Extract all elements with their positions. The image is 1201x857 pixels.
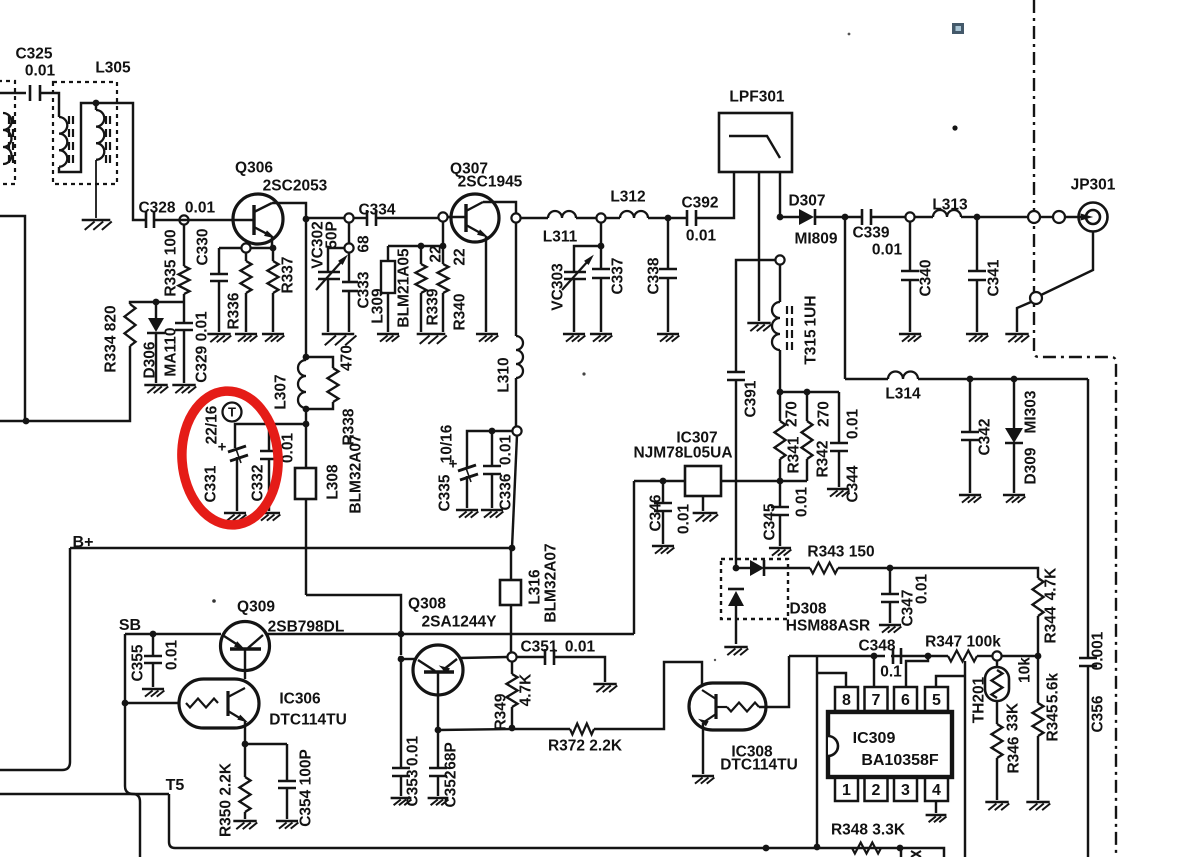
svg-text:0.01: 0.01: [164, 640, 181, 671]
svg-text:MI809: MI809: [794, 231, 837, 248]
diode D308b: [728, 588, 744, 591]
capacitor C392 0.01: [668, 217, 687, 219]
node D307 anode: [777, 214, 784, 221]
svg-text:4: 4: [932, 782, 941, 799]
transformer L304 (partial, cut at left edge): [0, 81, 15, 184]
node C346: [660, 478, 667, 485]
IC309 pin 7: [865, 687, 888, 711]
capacitor C329 0.01: [183, 302, 185, 323]
svg-text:SB: SB: [119, 617, 141, 634]
svg-text:D306: D306: [142, 341, 159, 378]
svg-text:+: +: [449, 455, 458, 472]
L305 core: [68, 116, 70, 124]
svg-text:R337: R337: [280, 256, 297, 293]
L305 secondary bottom to ground: [95, 160, 97, 218]
ground under C329: [172, 384, 195, 387]
node L305 secondary top: [93, 100, 100, 107]
ground under C336: [481, 509, 503, 512]
capacitor C352 68P: [437, 730, 439, 768]
wire Q308 base down: [437, 673, 439, 730]
wire Q306 collector: [272, 203, 306, 219]
capacitor C325 0.01: [29, 85, 32, 101]
capacitor C346 0.01: [662, 481, 664, 503]
wire C328 to Q306 base: [154, 219, 233, 221]
wire R343 to R344: [838, 568, 1038, 578]
svg-text:HSM88ASR: HSM88ASR: [786, 618, 870, 635]
ground under C346: [652, 545, 674, 548]
svg-text:6: 6: [901, 692, 910, 709]
resistor R343 150: [810, 563, 838, 574]
svg-text:C355: C355: [130, 644, 147, 681]
ground under C335: [456, 509, 478, 512]
ground under C352: [428, 797, 449, 800]
svg-text:8: 8: [842, 692, 851, 709]
dual diode D308 HSM88ASR (dotted box): [721, 559, 788, 619]
svg-text:0.01: 0.01: [498, 435, 515, 466]
node jack switch contact 1: [1028, 211, 1040, 223]
transistor Q307 2SC1945: [451, 194, 499, 242]
wire IC307 output: [634, 480, 685, 482]
svg-text:L313: L313: [932, 197, 968, 214]
resistor R372 2.2K: [570, 724, 594, 735]
svg-text:0.01: 0.01: [845, 409, 862, 440]
svg-text:C329 0.01: C329 0.01: [194, 311, 211, 383]
wire C341 to jack: [977, 216, 1029, 218]
svg-text:5: 5: [932, 692, 941, 709]
T5 corner to bottom rail: [169, 794, 175, 848]
svg-text:R348 3.3K: R348 3.3K: [831, 822, 906, 839]
svg-text:C345: C345: [762, 503, 779, 540]
svg-text:C356: C356: [1090, 695, 1107, 732]
svg-text:4.7K: 4.7K: [1043, 567, 1060, 601]
ground under C351: [593, 683, 616, 686]
svg-text:BLM32A07: BLM32A07: [348, 434, 365, 513]
wire base tap down: [442, 222, 444, 246]
capacitor C356 0.001: [1079, 657, 1097, 660]
capacitor C333 68: [348, 252, 350, 282]
wire Q309 collector to IC307 feed: [267, 633, 634, 635]
svg-text:3: 3: [901, 782, 910, 799]
ground under C331: [224, 512, 246, 515]
inductor L313: [933, 210, 961, 217]
resistor R342 270: [806, 392, 808, 421]
node pin7 tap: [871, 653, 878, 660]
svg-text:R372 2.2K: R372 2.2K: [548, 738, 623, 755]
node C338: [665, 215, 672, 222]
node R350/C354: [242, 741, 249, 748]
inductor L312: [620, 211, 648, 218]
node C328/R335: [179, 215, 188, 224]
capacitor C336 0.01: [491, 431, 493, 466]
svg-text:MA110: MA110: [163, 327, 180, 376]
svg-text:0.01: 0.01: [185, 200, 216, 217]
wire SB corner down: [124, 634, 126, 703]
svg-text:D307: D307: [788, 193, 825, 210]
svg-text:C346: C346: [648, 494, 665, 531]
node Q308 base/C352: [435, 727, 442, 734]
inductor L310: [516, 336, 523, 378]
inductor L307: [298, 360, 306, 408]
node T315 bottom: [777, 389, 784, 396]
svg-text:L311: L311: [543, 229, 578, 246]
resistor R336: [245, 252, 247, 261]
svg-text:BA10358F: BA10358F: [861, 752, 939, 769]
svg-text:C334: C334: [358, 202, 395, 219]
capacitor C354 100P: [286, 744, 288, 781]
svg-text:10k: 10k: [1017, 657, 1034, 683]
wire R372 to IC308: [594, 662, 702, 729]
IC309 pin 3: [894, 777, 917, 801]
resistor R337: [272, 251, 274, 261]
svg-text:T5: T5: [166, 777, 185, 794]
ground under pin4: [926, 814, 947, 817]
ground under R339/R340: [417, 333, 446, 336]
wire to L308: [305, 424, 307, 468]
svg-text:0.1: 0.1: [880, 664, 902, 681]
inductor L311: [548, 211, 576, 218]
svg-text:50P: 50P: [324, 221, 341, 249]
capacitor C347 0.01: [889, 568, 891, 594]
wire Q307 emitter: [485, 236, 487, 332]
svg-text:DTC114TU: DTC114TU: [720, 757, 798, 774]
svg-text:C336: C336: [498, 473, 515, 510]
ferrite bead L316 BLM32A07: [500, 580, 521, 605]
wire C335/C336 branch: [467, 431, 512, 468]
IC309 pin 6: [894, 687, 917, 711]
capacitor C348 0.1: [892, 648, 895, 664]
wire C391 branch: [736, 260, 776, 372]
capacitor C344 0.01: [838, 392, 840, 443]
capacitor C332 0.01: [268, 424, 270, 451]
op-amp IC309 BA10358F: [828, 712, 952, 777]
ground under C341: [966, 333, 988, 336]
node C331/C332 tap: [303, 421, 310, 428]
svg-text:D309: D309: [1023, 447, 1040, 484]
node bracket/R348: [814, 844, 821, 851]
svg-text:T: T: [228, 405, 236, 420]
node D306 top: [153, 299, 160, 306]
svg-text:2SC1945: 2SC1945: [458, 174, 523, 191]
svg-text:DTC114TU: DTC114TU: [269, 712, 347, 729]
wire IC308 emitter to ground: [702, 723, 704, 774]
wire L307 to C331 tap: [305, 409, 307, 424]
blue marker square: [952, 23, 964, 34]
wire node to L312: [605, 217, 620, 219]
wire right bracket: [964, 661, 966, 857]
svg-text:C342: C342: [977, 418, 994, 455]
resistor R339 22: [420, 246, 422, 264]
wire collector to C334: [306, 217, 344, 219]
resistor R338 470: [306, 357, 333, 368]
svg-text:R349: R349: [493, 693, 510, 730]
svg-text:C331: C331: [203, 465, 220, 502]
svg-text:IC306: IC306: [279, 691, 321, 708]
ground under C342: [959, 494, 981, 497]
transistor Q306 2SC2053: [233, 194, 283, 244]
svg-text:R344: R344: [1043, 606, 1060, 643]
svg-text:JP301: JP301: [1071, 177, 1116, 194]
svg-text:MI303: MI303: [1023, 390, 1040, 433]
ground under C337: [590, 333, 612, 336]
node L310/L316/B+ junction: [509, 545, 516, 552]
wire to R344/R345 node: [1002, 655, 1038, 657]
svg-text:Q306: Q306: [235, 160, 273, 177]
inductor T315 1UH: [779, 264, 781, 302]
svg-text:R341: R341: [786, 436, 803, 473]
node jack switch contact 2: [1053, 211, 1065, 223]
wire pin6 stub: [906, 656, 928, 687]
wire R347 to TH201 node: [977, 655, 992, 657]
svg-text:0.01: 0.01: [676, 504, 693, 535]
wire D307 node down: [844, 217, 846, 379]
ground under R350: [233, 820, 256, 823]
node bottom rail left: [763, 845, 770, 852]
ground under C353: [391, 797, 412, 800]
wire base row: [438, 729, 512, 730]
svg-text:68: 68: [356, 235, 373, 253]
svg-text:0.01: 0.01: [794, 487, 811, 518]
trimmer capacitor VC303: [564, 271, 586, 274]
ground under jack switch: [1005, 333, 1028, 336]
capacitor C341: [976, 217, 978, 271]
thermistor TH201 10k: [996, 661, 998, 667]
svg-text:C344: C344: [845, 465, 862, 502]
capacitor C391: [727, 371, 745, 374]
wire SB drop to T5 line: [125, 703, 133, 794]
node D308 common: [733, 565, 740, 572]
L305 secondary winding: [95, 103, 97, 110]
ground under IC307: [693, 512, 718, 515]
svg-text:+: +: [218, 438, 227, 455]
wire L308 to Q309/Q308 feed: [306, 595, 401, 655]
svg-text:5.6k: 5.6k: [1045, 673, 1062, 704]
svg-text:C330: C330: [195, 228, 212, 265]
diode D306 MA110: [155, 302, 157, 318]
svg-text:L316: L316: [527, 569, 544, 605]
ground under VC303: [563, 333, 585, 336]
svg-text:C354 100P: C354 100P: [298, 749, 315, 827]
svg-text:0.01: 0.01: [25, 63, 56, 80]
jack sleeve switch wire: [1041, 231, 1093, 295]
speck marks: [952, 125, 957, 130]
electrolytic capacitor C335 10/16: [458, 465, 476, 471]
svg-text:0.001: 0.001: [1090, 631, 1107, 670]
node R344/R345: [1035, 653, 1042, 660]
T5 branch down: [133, 794, 140, 857]
wire left edge feed: [0, 216, 25, 421]
capacitor C338: [667, 218, 669, 269]
ground under VC302/C333: [322, 333, 355, 336]
resistor R350 2.2K: [244, 744, 246, 777]
wire bias row: [388, 245, 443, 247]
capacitor C340: [909, 222, 911, 271]
svg-text:R339: R339: [425, 288, 442, 325]
svg-text:C335: C335: [437, 474, 454, 511]
svg-text:L312: L312: [610, 189, 645, 206]
ground under C347: [879, 624, 901, 627]
svg-text:C392: C392: [681, 195, 718, 212]
node VC302/C333 junction: [344, 243, 353, 252]
svg-text:L307: L307: [273, 374, 290, 409]
wire R334 top to bias node: [130, 302, 184, 304]
svg-text:2SA1244Y: 2SA1244Y: [422, 614, 498, 631]
svg-text:TH201: TH201: [971, 676, 988, 723]
node C336 top: [489, 428, 496, 435]
capacitor C353 0.01: [392, 767, 410, 770]
wire collector node down: [305, 219, 307, 357]
wire Q309 base down: [244, 650, 246, 679]
svg-text:Q309: Q309: [237, 599, 275, 616]
svg-text:0.01: 0.01: [565, 639, 596, 656]
LPF301 pin2 to ground: [758, 172, 760, 321]
wire to VC302: [328, 248, 345, 272]
capacitor C334: [353, 217, 367, 219]
svg-text:L310: L310: [496, 357, 513, 392]
wire to R334: [26, 346, 130, 421]
ground under R337: [262, 333, 284, 336]
ground under C332: [258, 512, 280, 515]
ground under L309: [377, 333, 399, 336]
IC309 pin 5: [925, 687, 948, 711]
wire collector node to L311: [520, 217, 548, 219]
svg-text:2SC2053: 2SC2053: [263, 178, 328, 195]
transistor Q309 2SB798DL: [221, 622, 270, 671]
bottom rail wire: [175, 847, 901, 849]
svg-text:R347 100k: R347 100k: [925, 634, 1001, 651]
pin4 ground wire: [935, 801, 937, 813]
svg-text:R345: R345: [1045, 704, 1062, 741]
node C351/R349/L316: [507, 652, 516, 661]
capacitor C355 0.01: [152, 634, 154, 656]
svg-text:R340: R340: [452, 293, 469, 330]
node R349 bottom: [509, 725, 516, 732]
svg-text:0.01: 0.01: [405, 736, 422, 767]
node C340: [905, 212, 914, 221]
wire contact link: [1040, 216, 1053, 218]
wire C331/C332 branch: [235, 424, 306, 448]
node R342 top: [804, 389, 811, 396]
ground under R345: [1026, 801, 1049, 804]
wire pin8 bracket: [816, 656, 818, 847]
wire pin7 stub: [873, 656, 875, 687]
resistor R344 4.7K: [1033, 578, 1044, 616]
svg-text:L308: L308: [325, 464, 342, 500]
wire L313 to C341 node: [961, 216, 977, 218]
node R336 top: [241, 243, 250, 252]
diode D307 MI809: [780, 216, 799, 218]
diode D309 MI303: [1013, 379, 1015, 428]
wire IC306 input: [125, 702, 179, 704]
svg-text:68P: 68P: [443, 742, 460, 770]
svg-text:T315: T315: [803, 329, 820, 365]
wire IC308 base resistor out: [759, 656, 789, 707]
wire to VC303: [574, 246, 598, 272]
electrolytic capacitor C331 22/16: [228, 446, 246, 452]
wire C325 to L305 primary: [40, 93, 59, 117]
svg-text:NJM78L05UA: NJM78L05UA: [633, 445, 732, 462]
wire IC306 emitter down: [244, 721, 246, 744]
svg-text:7: 7: [872, 692, 881, 709]
ground under D308: [724, 646, 747, 649]
node pin6 tap: [925, 653, 932, 660]
ground under D309: [1003, 494, 1025, 497]
ferrite bead L308 BLM32A07: [295, 468, 316, 499]
svg-text:2: 2: [872, 782, 881, 799]
svg-text:0.01: 0.01: [872, 242, 903, 259]
wire tap down: [348, 222, 350, 244]
wire Q307 collector down to L310: [515, 222, 517, 336]
wire L314 to corner: [918, 378, 1088, 380]
svg-text:L305: L305: [95, 60, 131, 77]
svg-text:22: 22: [452, 248, 469, 265]
digital transistor IC306 DTC114TU: [179, 679, 259, 728]
capacitor C345 0.01: [779, 481, 781, 507]
resistor R347 100k: [948, 651, 977, 662]
ground under C344: [827, 488, 849, 491]
node D307 cathode: [842, 214, 849, 221]
component box bottom edge: [901, 848, 944, 857]
svg-text:L314: L314: [885, 386, 921, 403]
svg-text:D308: D308: [789, 601, 826, 618]
svg-text:33K: 33K: [1005, 702, 1022, 731]
wire pin5 stub: [936, 676, 965, 687]
wire IC308 to R347 node row: [789, 655, 948, 657]
ferrite bead L309 BLM21A05: [387, 246, 389, 261]
svg-text:C341: C341: [986, 259, 1003, 296]
switch wire to ground: [1017, 302, 1031, 332]
node VC302/C333 tap: [344, 213, 353, 222]
svg-text:R335 100: R335 100: [163, 229, 180, 296]
ground under R346: [985, 801, 1008, 804]
svg-text:1UH: 1UH: [803, 295, 820, 326]
IC309 pin 4: [925, 777, 948, 801]
IC309 pin 2: [865, 777, 888, 801]
wire R349 to R372: [512, 728, 570, 730]
svg-text:1: 1: [842, 782, 851, 799]
node TH201: [992, 651, 1001, 660]
wire feed down to C353: [400, 659, 402, 768]
resistor R349 4.7K: [511, 662, 513, 674]
capacitor C342: [969, 379, 971, 432]
node Q307 collector: [511, 213, 520, 222]
svg-text:C339: C339: [852, 225, 889, 242]
resistor R340 22: [442, 246, 444, 264]
node bottom-left: [23, 418, 30, 425]
T5 horizontal wire: [0, 793, 169, 795]
svg-text:C338: C338: [646, 257, 663, 294]
trimmer capacitor VC302 50P: [318, 271, 340, 274]
node R341/C345: [777, 478, 784, 485]
wire IC307 input: [721, 480, 807, 482]
wire R341/R342/C344 rail: [780, 391, 839, 393]
node Q306 collector: [303, 216, 310, 223]
svg-text:VC303: VC303: [550, 263, 567, 311]
jack JP301: [1079, 203, 1108, 232]
svg-text:LPF301: LPF301: [729, 89, 785, 106]
resistor R345 5.6k: [1037, 656, 1039, 703]
node Q309 collector tap: [398, 631, 405, 638]
red highlight ellipse around C331: [177, 388, 282, 528]
ground under C354: [276, 820, 298, 823]
node VC303 junction: [598, 243, 605, 250]
node Q307 base: [438, 212, 447, 221]
node C341: [974, 214, 981, 221]
wire Q307 collector: [483, 202, 516, 214]
wire C392 to LPF301: [696, 172, 734, 218]
wire corner down to C356: [1087, 379, 1089, 658]
node IC306 input: [122, 700, 129, 707]
SB rail wire: [125, 633, 221, 635]
